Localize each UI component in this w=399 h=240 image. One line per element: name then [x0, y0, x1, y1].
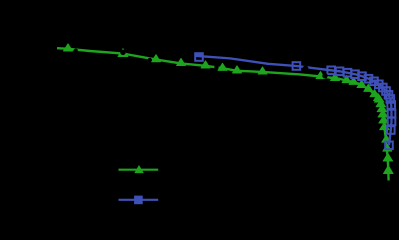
blue square marker 3: [327, 67, 335, 75]
blue square marker 5: [344, 69, 352, 77]
black occluding dot 2: [120, 50, 126, 56]
blue square marker 1: [195, 53, 203, 61]
green triangle marker 4: [201, 61, 210, 68]
green triangle marker 16: [374, 95, 384, 102]
blue square marker 11: [379, 84, 387, 92]
green triangle marker 14: [370, 90, 379, 97]
green triangle marker 3: [177, 58, 186, 65]
blue square marker 8: [365, 75, 373, 83]
legend green entry line: [119, 169, 159, 171]
green triangle marker 6: [233, 66, 242, 73]
green triangle marker 13: [364, 84, 373, 91]
blue square marker 2: [293, 62, 301, 70]
green triangle marker 10: [342, 76, 351, 83]
green triangle marker 5: [218, 63, 227, 70]
blue square marker 16: [388, 110, 396, 118]
legend blue entry line: [119, 199, 159, 201]
blue square marker 10: [375, 81, 383, 89]
green triangle marker 11: [349, 77, 358, 84]
blue square marker 14: [387, 95, 395, 103]
green triangle marker 25: [384, 166, 394, 174]
blue square marker 15: [387, 101, 395, 109]
black occluding dot 1: [74, 49, 78, 53]
green triangle marker 9: [331, 73, 340, 80]
black occluding dot 3: [148, 58, 152, 62]
legend green triangle marker: [134, 165, 144, 173]
green triangle marker 7: [258, 67, 267, 74]
green triangle marker 18: [377, 105, 387, 112]
green triangle marker 24: [383, 153, 393, 161]
blue square marker 12: [382, 87, 390, 95]
black occluding dot 4: [214, 65, 218, 69]
green triangle marker (x=123, large): [118, 49, 128, 57]
black occluding dot 5: [303, 66, 309, 72]
blue square marker 13: [385, 91, 393, 99]
first blue square interior patch: [196, 53, 203, 56]
blue series line (square-marker curve): [195, 56, 391, 146]
green triangle marker 2: [152, 55, 161, 62]
green triangle marker 12: [357, 80, 366, 87]
black occluding dot 6: [322, 73, 327, 78]
green triangle marker 20: [379, 116, 389, 123]
blue square marker 7: [358, 72, 366, 80]
blue square marker 18: [387, 126, 395, 134]
blue square marker 19: [385, 142, 393, 150]
green triangle marker 22: [382, 135, 391, 142]
blue square marker 17: [388, 118, 396, 126]
blue square marker 9: [370, 78, 378, 86]
blue square marker 6: [351, 70, 359, 78]
green triangle marker 21: [380, 123, 390, 130]
green triangle marker 17: [376, 100, 386, 107]
legend blue square marker: [134, 196, 143, 205]
green series line (triangle-marker curve): [57, 48, 389, 180]
green triangle marker 1: [64, 44, 73, 51]
green triangle marker 23: [383, 144, 392, 151]
green triangle marker 19: [378, 110, 388, 117]
green triangle marker 15: [374, 94, 383, 101]
blue square marker 4: [336, 68, 344, 76]
green triangle marker 8: [316, 72, 325, 79]
